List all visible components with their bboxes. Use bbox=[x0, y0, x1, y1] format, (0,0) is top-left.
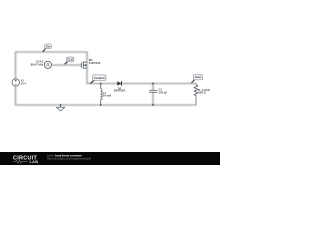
svg-text:Vout: Vout bbox=[195, 75, 201, 79]
svg-text:ZVP2106: ZVP2106 bbox=[89, 61, 101, 65]
svg-text:Vin: Vin bbox=[46, 44, 51, 48]
svg-text:1N4733A: 1N4733A bbox=[114, 89, 126, 93]
svg-text:10 V: 10 V bbox=[21, 82, 27, 86]
svg-text:500 Ω: 500 Ω bbox=[198, 91, 206, 95]
svg-text:100 µF: 100 µF bbox=[159, 90, 168, 94]
svg-text:LAB: LAB bbox=[30, 160, 39, 164]
svg-text:88.67 kHz: 88.67 kHz bbox=[31, 63, 44, 67]
svg-text:CLK: CLK bbox=[67, 57, 74, 61]
svg-text:Vswitch: Vswitch bbox=[94, 76, 105, 80]
svg-text:50 mH: 50 mH bbox=[103, 94, 111, 98]
